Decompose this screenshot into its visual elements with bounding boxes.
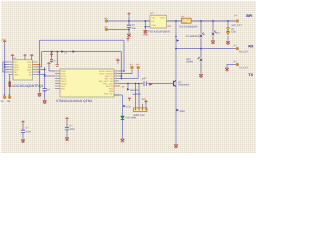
svg-text:RX: RX — [248, 44, 254, 48]
svg-text:TX: TX — [248, 73, 253, 77]
svg-text:U5: U5 — [9, 85, 13, 88]
svg-text:3V3: 3V3 — [142, 98, 147, 101]
svg-text:BPi: BPi — [246, 14, 252, 18]
svg-text:STM32L031K6U6 QFN3: STM32L031K6U6 QFN3 — [56, 99, 92, 103]
svg-text:5V0_EXT: 5V0_EXT — [232, 24, 243, 27]
svg-text:LED GRN: LED GRN — [125, 117, 136, 120]
svg-text:GND: GND — [14, 73, 19, 76]
svg-text:RX_EXT: RX_EXT — [239, 50, 249, 53]
svg-text:27: 27 — [115, 77, 117, 79]
svg-text:XA: XA — [0, 100, 4, 103]
svg-text:100n: 100n — [25, 130, 31, 133]
svg-text:LED: LED — [126, 105, 131, 108]
svg-text:100n: 100n — [69, 128, 75, 131]
svg-text:TLV70245DBVR: TLV70245DBVR — [179, 25, 198, 28]
svg-text:TPS7A2033PDBVR: TPS7A2033PDBVR — [147, 31, 170, 34]
svg-text:25: 25 — [115, 82, 117, 84]
svg-text:D? SMBJ5V0: D? SMBJ5V0 — [186, 35, 201, 38]
svg-text:GND: GND — [151, 24, 156, 27]
svg-text:DMG3404: DMG3404 — [178, 84, 190, 87]
svg-text:26: 26 — [115, 80, 117, 82]
svg-text:28: 28 — [115, 75, 117, 77]
svg-text:PB9 / I2C: PB9 / I2C — [104, 92, 113, 95]
svg-text:EN: EN — [168, 25, 172, 28]
svg-text:VOUT: VOUT — [160, 17, 166, 20]
svg-text:XB: XB — [7, 100, 11, 103]
svg-text:U?: U? — [150, 12, 154, 15]
svg-text:GND: GND — [180, 110, 186, 113]
svg-text:10u: 10u — [132, 27, 137, 30]
svg-text:2R090: 2R090 — [186, 60, 194, 63]
svg-text:GND: GND — [143, 34, 149, 37]
svg-text:3V3: 3V3 — [1, 39, 6, 42]
svg-text:BOOT0: BOOT0 — [131, 89, 140, 92]
svg-text:29: 29 — [115, 72, 117, 74]
svg-text:VIN: VIN — [151, 17, 155, 20]
svg-text:ESD: ESD — [231, 31, 236, 34]
svg-text:30: 30 — [115, 70, 117, 72]
svg-text:GND: GND — [183, 21, 188, 24]
svg-text:0R: 0R — [122, 85, 125, 88]
svg-text:LDC1614QDNTRQ1: LDC1614QDNTRQ1 — [13, 84, 44, 88]
svg-text:SWDIO: SWDIO — [133, 93, 141, 96]
svg-text:TX_EXT: TX_EXT — [239, 66, 249, 69]
